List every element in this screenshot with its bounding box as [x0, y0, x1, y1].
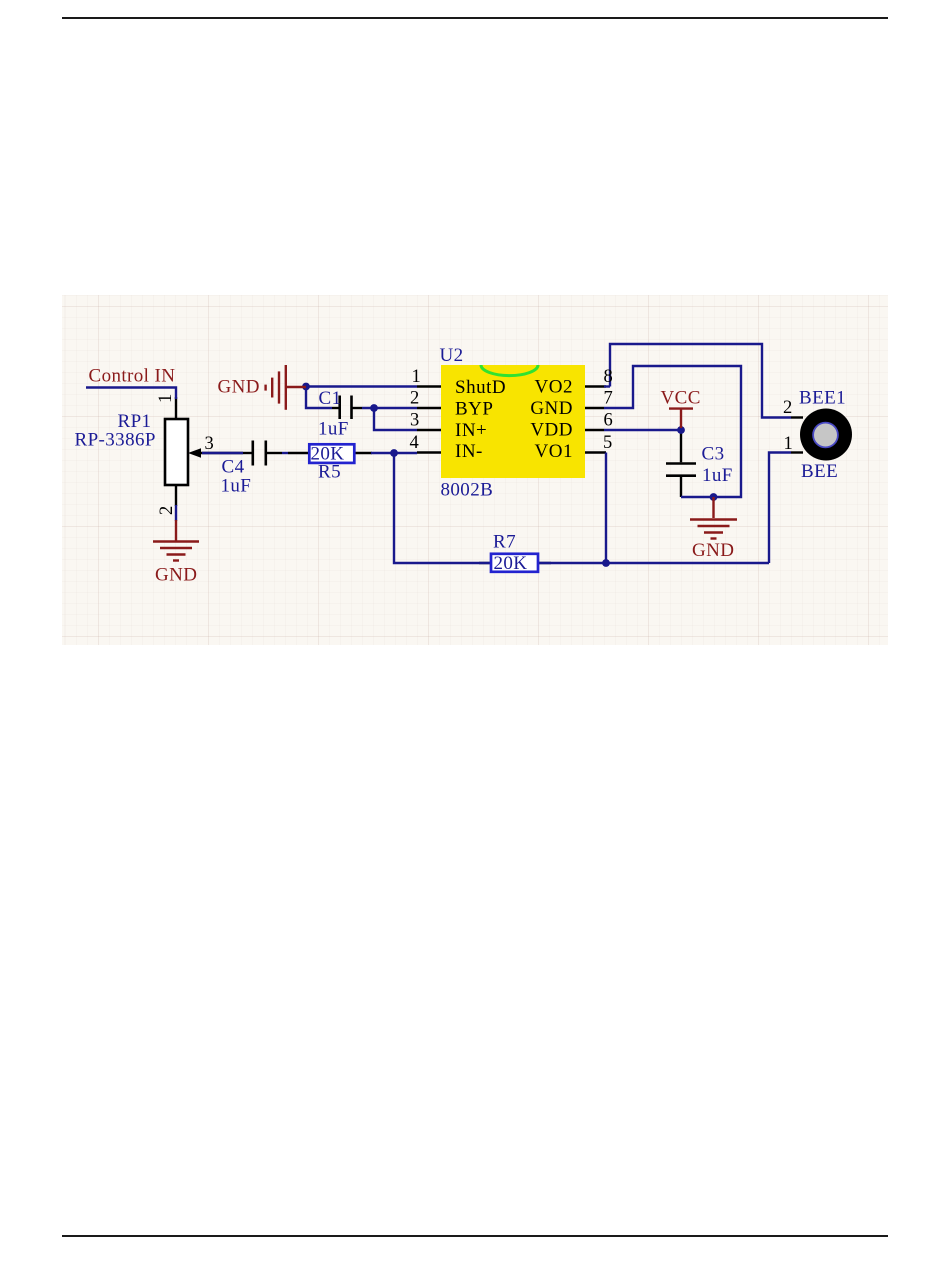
svg-text:VDD: VDD [530, 420, 573, 441]
svg-text:C1: C1 [319, 388, 342, 409]
svg-text:2: 2 [410, 388, 419, 408]
svg-text:3: 3 [205, 434, 214, 454]
svg-text:4: 4 [410, 433, 419, 453]
svg-text:IN+: IN+ [455, 420, 487, 441]
svg-text:20K: 20K [494, 553, 528, 574]
svg-text:1: 1 [784, 434, 793, 454]
svg-text:1uF: 1uF [702, 465, 733, 486]
svg-text:1uF: 1uF [318, 419, 349, 440]
svg-text:C4: C4 [222, 457, 245, 478]
svg-text:C3: C3 [702, 444, 725, 465]
svg-text:1: 1 [156, 394, 176, 403]
svg-text:5: 5 [603, 433, 612, 453]
svg-text:1: 1 [412, 367, 421, 387]
svg-text:IN-: IN- [455, 441, 483, 462]
svg-text:VO2: VO2 [535, 377, 573, 398]
svg-text:7: 7 [604, 388, 613, 408]
svg-text:BEE: BEE [801, 461, 838, 482]
svg-text:2: 2 [783, 398, 792, 418]
svg-text:8002B: 8002B [441, 480, 494, 501]
svg-text:GND: GND [218, 377, 260, 398]
svg-text:GND: GND [530, 398, 573, 419]
svg-text:VO1: VO1 [535, 441, 573, 462]
svg-text:2: 2 [157, 506, 177, 515]
svg-text:R5: R5 [318, 462, 341, 483]
svg-text:3: 3 [410, 410, 419, 430]
svg-text:RP-3386P: RP-3386P [75, 430, 156, 451]
svg-text:ShutD: ShutD [455, 377, 506, 398]
svg-text:6: 6 [604, 410, 613, 430]
svg-text:U2: U2 [440, 345, 464, 366]
svg-text:BYP: BYP [455, 398, 493, 419]
svg-text:BEE1: BEE1 [799, 388, 846, 409]
svg-text:Control IN: Control IN [89, 366, 176, 387]
svg-text:8: 8 [604, 367, 613, 387]
svg-text:GND: GND [692, 540, 734, 561]
svg-text:R7: R7 [493, 531, 516, 552]
svg-text:VCC: VCC [661, 388, 701, 409]
svg-text:1uF: 1uF [221, 476, 252, 497]
svg-text:GND: GND [155, 565, 197, 586]
